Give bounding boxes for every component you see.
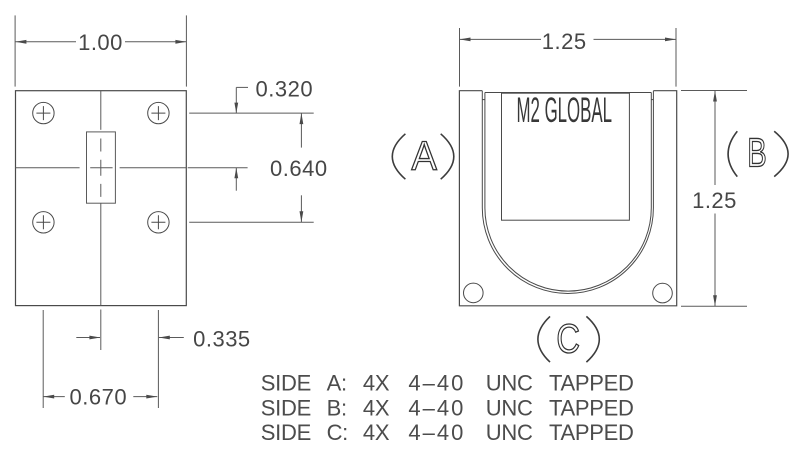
U channel inner wall	[485, 93, 651, 292]
svg-text:UNC: UNC	[486, 396, 533, 421]
svg-text:0.335: 0.335	[193, 326, 251, 351]
svg-text:0.320: 0.320	[256, 77, 314, 102]
extension line hole row top (right side)	[188, 113, 314, 222]
extension line mid centerline (right side)	[188, 167, 248, 169]
label (B)	[728, 129, 788, 176]
svg-text:UNC: UNC	[486, 420, 533, 445]
note line side B	[261, 396, 634, 421]
svg-text:1.25: 1.25	[692, 188, 737, 213]
svg-text:A:: A:	[327, 371, 347, 396]
svg-text:4X: 4X	[363, 420, 390, 445]
svg-text:C:: C:	[327, 420, 348, 445]
left view body outline	[16, 91, 187, 306]
dimension 0.335	[76, 337, 184, 339]
aperture rectangle (waveguide opening)	[87, 132, 116, 203]
svg-text:SIDE: SIDE	[261, 420, 311, 445]
svg-text:TAPPED: TAPPED	[549, 420, 634, 445]
dimension 0.320 leader	[236, 87, 248, 190]
hole top-left	[33, 102, 54, 123]
dimension 0.670	[43, 396, 157, 398]
svg-text:4–40: 4–40	[408, 420, 465, 445]
svg-text:4–40: 4–40	[408, 371, 465, 396]
svg-text:B:: B:	[327, 396, 347, 421]
hole bottom-left	[33, 212, 54, 233]
U channel outer wall	[482, 91, 653, 294]
dimension 1.25 (right of right view)	[681, 91, 747, 307]
svg-text:4–40: 4–40	[408, 396, 465, 421]
svg-text:UNC: UNC	[486, 371, 533, 396]
dimension 0.640	[300, 113, 302, 222]
vertical split line (solid above aperture)	[100, 91, 102, 130]
vertical split line (solid below aperture)	[100, 203, 102, 305]
svg-text:TAPPED: TAPPED	[549, 396, 634, 421]
note line side C	[261, 420, 634, 445]
tick right wall	[651, 99, 653, 101]
label (C)	[538, 315, 599, 362]
svg-text:M2 GLOBAL: M2 GLOBAL	[517, 91, 613, 130]
extension line left hole column below part	[42, 310, 44, 408]
svg-text:4X: 4X	[363, 371, 390, 396]
note line side A	[261, 371, 634, 396]
dimension 1.25 (top of right view)	[460, 28, 677, 87]
horizontal centerline dash through aperture	[90, 167, 112, 169]
label (A)	[392, 132, 454, 179]
dimension 1.00 (top of left view)	[15, 15, 186, 86]
svg-text:SIDE: SIDE	[261, 396, 311, 421]
svg-text:4X: 4X	[363, 396, 390, 421]
tick left wall	[482, 99, 485, 101]
svg-text:TAPPED: TAPPED	[549, 371, 634, 396]
vertical extension line below part (0.335)	[100, 310, 102, 351]
svg-text:C: C	[556, 315, 580, 361]
svg-text:A: A	[412, 132, 438, 178]
svg-text:SIDE: SIDE	[261, 371, 311, 396]
hole bottom-right	[148, 212, 169, 233]
ledge line across top of channel	[485, 92, 651, 94]
corner hole bottom-left	[464, 283, 484, 303]
svg-text:B: B	[747, 129, 767, 175]
right view body outline	[459, 91, 676, 306]
vertical centerline dashes inside aperture	[100, 139, 102, 197]
corner hole bottom-right	[653, 283, 673, 303]
extension line hole row bottom (right side)	[189, 221, 314, 223]
svg-text:0.670: 0.670	[70, 385, 128, 410]
horizontal split line left segment	[16, 167, 80, 169]
horizontal split line right segment	[120, 167, 187, 169]
svg-text:0.640: 0.640	[270, 156, 328, 181]
svg-text:1.00: 1.00	[78, 30, 123, 55]
svg-text:1.25: 1.25	[542, 29, 587, 54]
extension line right hole column below part	[43, 310, 158, 408]
insert rectangle	[502, 93, 630, 220]
hole top-right	[148, 102, 169, 123]
